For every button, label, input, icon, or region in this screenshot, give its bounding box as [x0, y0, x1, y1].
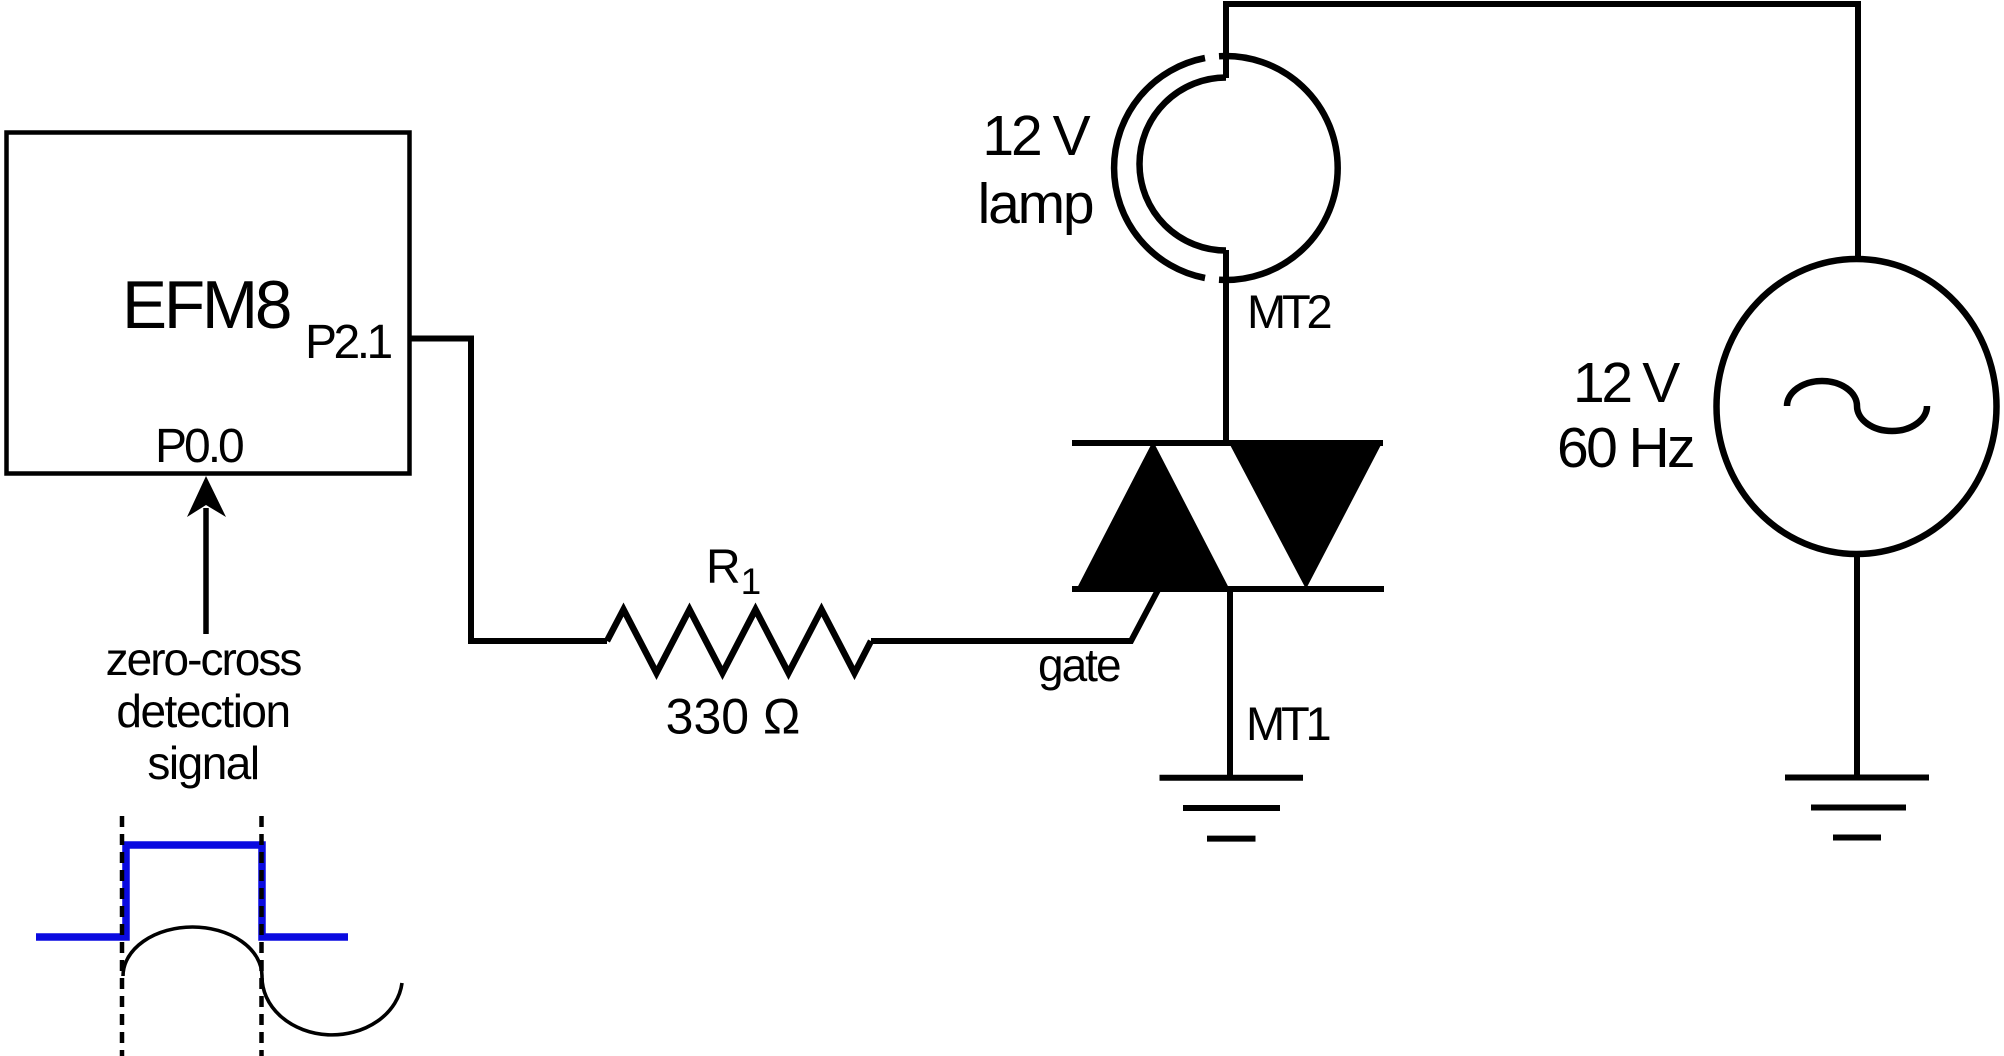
triac right triangle	[1228, 441, 1383, 589]
waveform: sine wave	[123, 927, 402, 1035]
microcontroller U1 EFM8 box	[7, 133, 410, 474]
dashed marker line right	[259, 816, 264, 1056]
wire P2.1 to resistor	[409, 339, 607, 642]
svg-text:signal: signal	[147, 737, 258, 789]
svg-text:lamp: lamp	[978, 172, 1093, 236]
svg-text:EFM8: EFM8	[122, 268, 290, 343]
dashed marker line left	[120, 816, 125, 1056]
lamp DS1 inner arc	[1140, 78, 1227, 251]
svg-text:P2.1: P2.1	[305, 316, 392, 369]
svg-text:MT1: MT1	[1246, 697, 1329, 750]
svg-text:12 V: 12 V	[982, 104, 1090, 168]
arrow into P0.0	[203, 508, 209, 634]
wire MT2 lamp to triac	[1223, 250, 1229, 446]
AC source sine symbol	[1787, 381, 1927, 431]
svg-text:zero-cross: zero-cross	[106, 633, 302, 685]
svg-text:P0.0: P0.0	[155, 420, 243, 473]
wire lamp top / top rail / down to source	[1226, 4, 1858, 260]
triac left triangle	[1075, 441, 1231, 592]
ground G2 under source	[1785, 775, 1929, 781]
resistor R1 zigzag	[607, 610, 871, 674]
AC source V1 circle	[1717, 259, 1997, 554]
svg-text:60 Hz: 60 Hz	[1557, 416, 1693, 480]
svg-text:330 Ω: 330 Ω	[666, 689, 801, 745]
wire AC source to ground	[1854, 553, 1860, 780]
svg-text:12 V: 12 V	[1573, 351, 1680, 415]
svg-text:gate: gate	[1038, 639, 1120, 691]
svg-text:MT2: MT2	[1247, 285, 1330, 338]
wire MT1 triac to ground	[1227, 589, 1233, 780]
lamp DS1 outer circle left arc	[1114, 58, 1205, 278]
triac Q1 top bar	[1072, 440, 1383, 446]
waveform: blue square wave	[36, 845, 348, 937]
svg-text:detection: detection	[116, 685, 289, 737]
wire resistor to gate	[871, 590, 1158, 641]
ground G1 under MT1	[1160, 775, 1304, 781]
lamp DS1 outer circle right arc	[1219, 56, 1338, 280]
triac Q1 bottom bar	[1072, 586, 1384, 592]
